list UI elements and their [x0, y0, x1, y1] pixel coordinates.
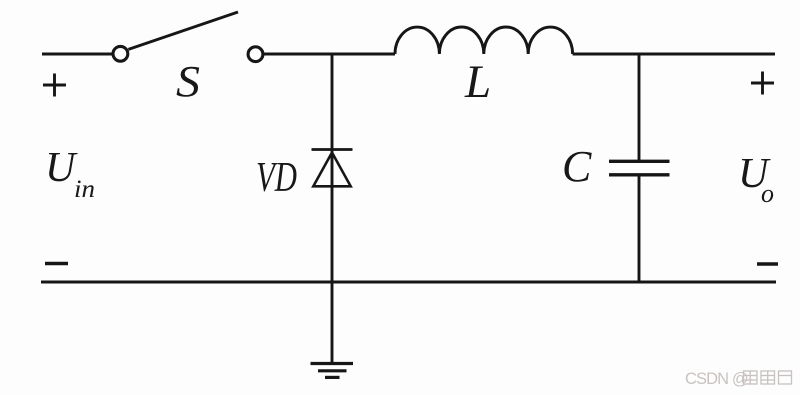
svg-text:S: S: [176, 57, 200, 106]
svg-text:o: o: [761, 179, 774, 208]
svg-text:VD: VD: [256, 155, 297, 201]
svg-text:in: in: [74, 176, 95, 203]
svg-text:L: L: [464, 56, 491, 108]
svg-text:CSDN @: CSDN @: [685, 370, 748, 388]
svg-text:C: C: [562, 142, 592, 191]
